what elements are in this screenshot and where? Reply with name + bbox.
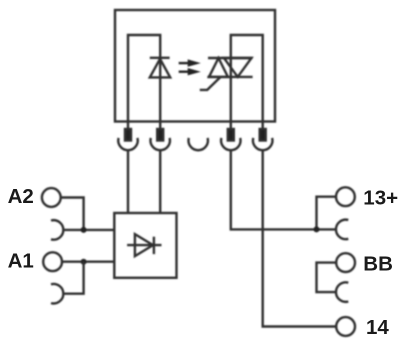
wire 13+ to junction: [317, 197, 336, 230]
wire A2 to junction: [61, 198, 84, 230]
socket below BB: [336, 282, 348, 302]
junction A1: [81, 259, 87, 265]
wire BB to BB socket: [317, 263, 337, 293]
wire A1 to box: [62, 261, 114, 263]
triac Q1: [200, 58, 253, 90]
socket 2: [150, 138, 169, 150]
socket 1: [118, 138, 137, 150]
svg-text:13+: 13+: [363, 186, 398, 209]
junction A2: [81, 227, 87, 233]
optocoupler light arrow 1: [179, 59, 201, 66]
optocoupler light arrow 2: [179, 68, 201, 75]
svg-text:A2: A2: [8, 185, 34, 208]
relay module outline: [115, 10, 275, 122]
wire pin1 to rectifier box: [127, 150, 129, 213]
pin 4 plug contact: [228, 129, 234, 141]
wire junction to A1 socket: [63, 262, 83, 294]
svg-text:14: 14: [366, 316, 389, 339]
terminal 14 circle: [336, 317, 355, 336]
wire output loop (pins 4-5): [231, 35, 263, 130]
terminal BB circle: [336, 253, 355, 272]
svg-text:BB: BB: [363, 252, 393, 275]
rectifier box: [114, 213, 176, 278]
socket below A2: [51, 220, 63, 239]
terminal A2 circle: [42, 188, 61, 207]
diode D2: [127, 234, 161, 256]
svg-text:A1: A1: [8, 250, 34, 273]
wire A2 socket to junction to box: [63, 229, 114, 231]
wire input loop (pins 1-2): [128, 35, 160, 130]
pin 1 plug contact: [125, 129, 131, 141]
terminal 13+ circle: [336, 187, 355, 206]
wire pin5 to 14: [263, 150, 337, 326]
socket 3 (empty): [188, 138, 208, 150]
junction 13+: [314, 226, 320, 232]
wire pin2 to rectifier box: [159, 150, 161, 213]
LED D1: [150, 58, 170, 78]
wire pin4 to 13+ junction: [231, 150, 317, 229]
pin 5 plug contact: [260, 129, 266, 141]
socket below 13+: [336, 220, 348, 239]
wire junction to 13+ socket: [317, 228, 337, 230]
pin 2 plug contact: [157, 129, 163, 141]
terminal A1 circle: [43, 252, 62, 271]
socket below A1: [51, 284, 63, 304]
socket 4: [221, 138, 240, 150]
socket 5: [253, 138, 272, 150]
